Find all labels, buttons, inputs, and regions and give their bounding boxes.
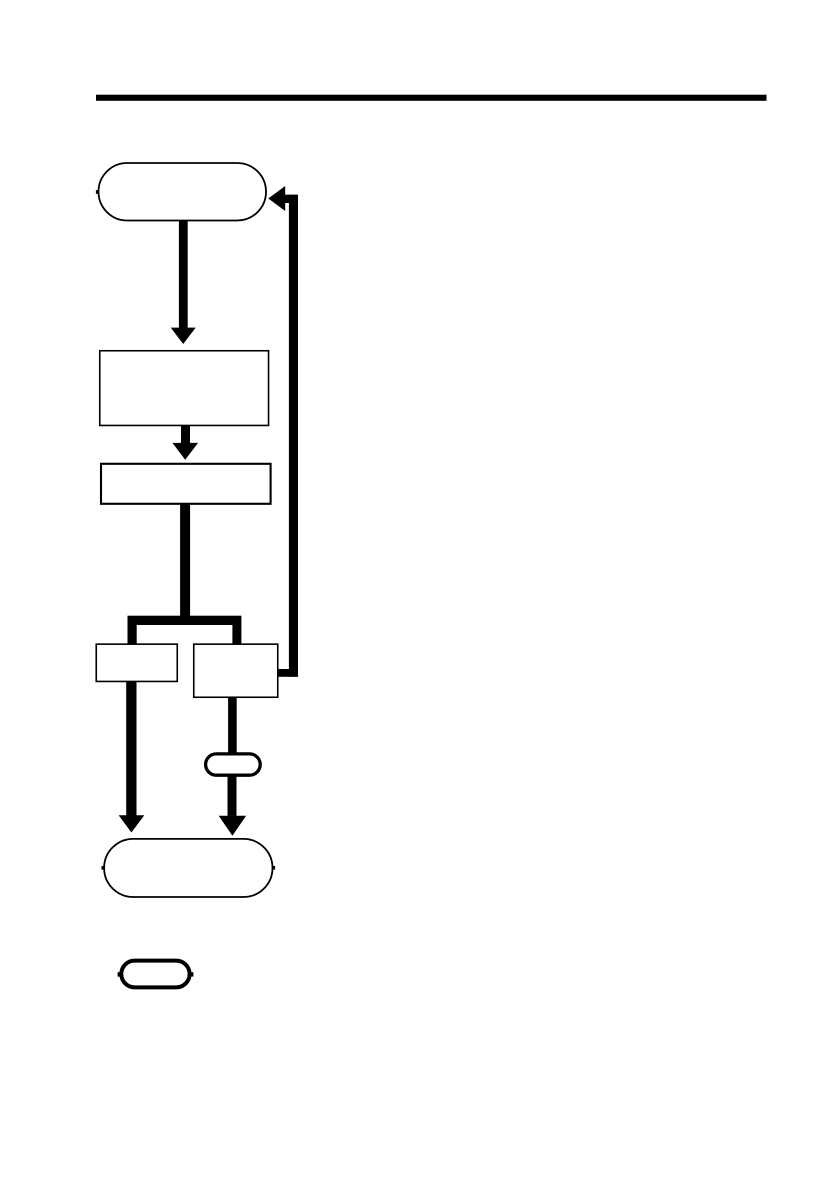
feedback vertical wire [289,195,298,677]
nub right of legend pill [190,972,193,976]
nub left of start stadium [96,190,99,194]
right branch drop wire [232,624,241,644]
right decision rect [194,644,278,697]
process rect2 [101,464,271,504]
nub right of end stadium [273,866,276,870]
branch horizontal bar [128,616,242,625]
nub left of legend pill [118,972,121,976]
right wire rect-to-pill [228,697,237,753]
left arrow to end stadium shaft [126,681,136,816]
right arrow to end stadium shaft [228,776,237,816]
left branch drop wire [128,624,137,644]
top horizontal rule [96,95,767,101]
terminator stadium (end) [104,839,272,897]
arrow rect1-to-rect2 head [172,443,198,460]
legend pill symbol [121,961,189,988]
feedback stub wire from right rect [278,669,299,677]
arrow rect1-to-rect2 shaft [181,426,190,444]
right arrow to end stadium head [219,816,246,836]
process rect1 [100,351,269,426]
left decision rect [96,644,177,681]
trunk wire rect2-to-branch [180,504,190,625]
nub left of end stadium [102,866,105,870]
arrow start-to-rect1 head [171,328,196,344]
terminator stadium (start) [99,163,267,221]
small connector pill [206,754,261,775]
left arrow to end stadium head [119,815,145,832]
arrow start-to-rect1 shaft [179,221,188,329]
feedback arrowhead into start stadium [268,186,285,211]
feedback top shaft wire [284,195,298,203]
